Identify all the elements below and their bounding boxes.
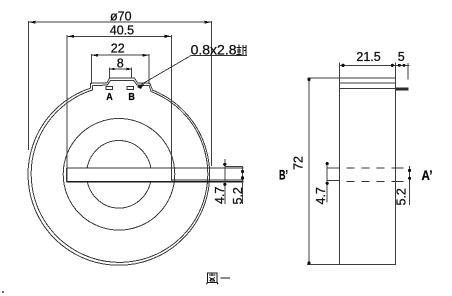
svg-text:22: 22 xyxy=(111,42,125,56)
slot bottom edge thick xyxy=(67,181,244,183)
caption 图一 xyxy=(207,273,231,285)
slot B xyxy=(127,87,134,90)
dimension 4.7 left view xyxy=(224,159,226,204)
inner shell outline xyxy=(31,81,208,263)
dimension Ø70 xyxy=(29,21,212,166)
dimension 22 xyxy=(92,54,150,84)
dimension 5.2 left view xyxy=(225,166,243,204)
svg-text:B: B xyxy=(128,91,135,103)
inner circle xyxy=(87,141,152,209)
svg-text:A’: A’ xyxy=(422,168,433,183)
svg-text:A: A xyxy=(106,91,113,103)
cap line 2 xyxy=(339,87,395,89)
side view body xyxy=(339,78,395,265)
svg-text:40.5: 40.5 xyxy=(110,23,134,37)
svg-text:0.8x2.8: 0.8x2.8 xyxy=(191,41,237,57)
label chip chars xyxy=(237,45,247,56)
slot left end edge xyxy=(66,168,68,182)
svg-text:5.2: 5.2 xyxy=(394,188,408,205)
svg-text:72: 72 xyxy=(291,156,305,170)
dimension 40.5 xyxy=(67,35,171,182)
dimension 5.2 side view xyxy=(409,166,411,205)
outer circle with flattened top boss xyxy=(28,78,210,265)
cap line 1 xyxy=(339,82,395,84)
dimension 4.7 side view xyxy=(327,162,339,203)
dimension 72 xyxy=(307,78,339,265)
slot A xyxy=(106,87,113,90)
svg-text:B’: B’ xyxy=(279,168,288,183)
svg-text:4.7: 4.7 xyxy=(314,187,328,204)
slot 4.7 line xyxy=(172,179,244,181)
dimension 8 xyxy=(110,68,132,79)
svg-text:5: 5 xyxy=(398,50,405,64)
flange tab xyxy=(396,88,409,91)
slot bar white fill xyxy=(67,169,172,182)
svg-text:ø70: ø70 xyxy=(110,10,132,24)
slot top edge + extension xyxy=(67,167,244,169)
svg-text:21.5: 21.5 xyxy=(356,50,380,64)
svg-text:5.2: 5.2 xyxy=(231,187,245,204)
middle circle xyxy=(63,119,175,231)
hidden slot dashed lines xyxy=(339,168,396,181)
stray dot xyxy=(2,291,4,293)
svg-text:8: 8 xyxy=(117,56,124,70)
dimension 21.5 xyxy=(339,63,409,80)
svg-text:4.7: 4.7 xyxy=(213,187,227,204)
leader 0.8x2.8 xyxy=(138,56,247,87)
